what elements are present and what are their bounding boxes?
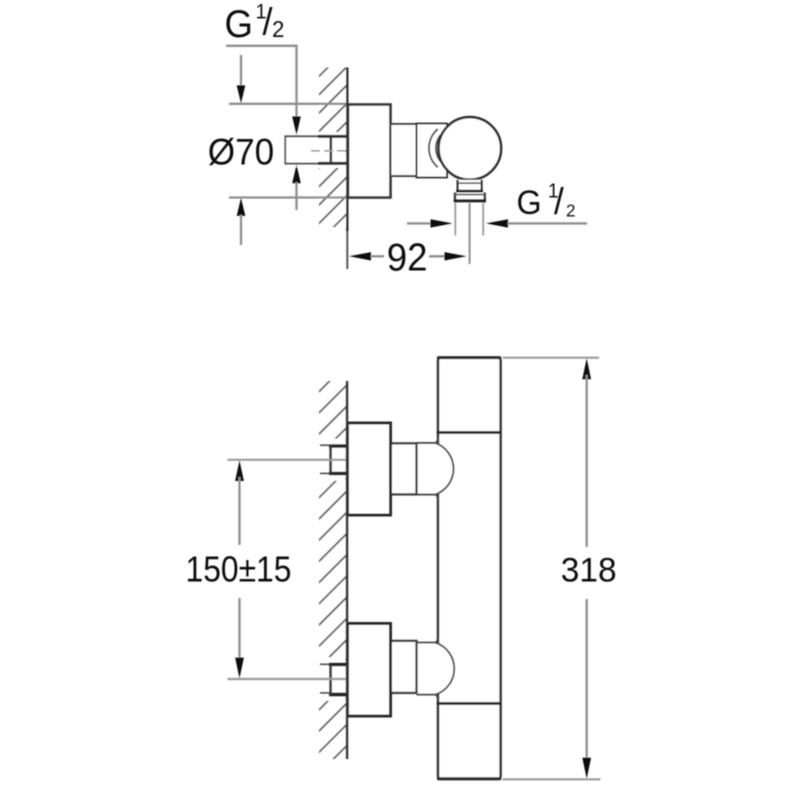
dim Ø70: upper arrow — [240, 55, 242, 88]
pipe centre line / 92 extension — [469, 203, 471, 264]
inlet boss lower — [417, 643, 455, 695]
dim G1/2 (upper): arrow up to nipple bottom — [292, 165, 301, 184]
shower hose pipe (phantom) — [454, 203, 456, 236]
extension line bottom of escutcheon (Ø70 lower) — [229, 196, 348, 198]
svg-text:/: / — [554, 180, 565, 222]
dim G1/2 (upper): arrow down to nipple top — [292, 117, 301, 136]
collar below knob — [456, 180, 483, 192]
svg-text:G: G — [225, 2, 253, 45]
wall section hatching (top view) — [319, 68, 347, 228]
dim 150: extension line lower — [228, 678, 347, 680]
nipple centre line — [311, 150, 348, 152]
svg-text:92: 92 — [387, 236, 428, 279]
svg-text:Ø70: Ø70 — [208, 130, 274, 172]
wall escutcheon (top view) — [348, 105, 391, 198]
valve body (front view) — [437, 358, 502, 780]
S-union connector lower — [391, 641, 417, 693]
dim G1/2 (outlet): line and arrows — [407, 222, 431, 224]
inlet boss upper — [417, 443, 454, 495]
S-union connector upper — [391, 443, 417, 494]
supply pipe stub upper — [320, 444, 330, 446]
extension line top of escutcheon (Ø70 upper) — [229, 103, 348, 105]
dim 318: dimension line and arrows — [582, 358, 591, 379]
dim 150±15: dimension line and arrows — [235, 460, 244, 481]
wall face extension for 92 dim — [346, 231, 348, 269]
svg-text:G: G — [517, 184, 542, 222]
text G1/2 (upper) — [225, 0, 285, 45]
svg-text:318: 318 — [561, 551, 617, 590]
dim 150: extension line upper — [228, 459, 347, 461]
wall face line (top view) — [346, 68, 349, 232]
wall face line (front view) — [346, 381, 349, 759]
wall section hatching (front view) — [319, 381, 347, 759]
valve body section 1 — [391, 124, 417, 176]
valve body section 2 — [417, 124, 448, 178]
dim G1/2 (upper): leader — [226, 45, 298, 47]
dim 318: extension lines — [503, 357, 599, 359]
svg-text:150±15: 150±15 — [186, 549, 292, 590]
dim Ø70: lower arrow — [237, 198, 246, 216]
wall escutcheon upper (front view) — [348, 423, 391, 515]
text G1/2 (outlet) — [517, 180, 576, 222]
union nut upper — [329, 443, 348, 477]
union nut lower — [329, 662, 348, 696]
svg-text:2: 2 — [566, 200, 576, 221]
inlet nipple through wall — [285, 133, 349, 167]
svg-text:2: 2 — [272, 15, 284, 42]
housing rim arcs behind knob — [429, 129, 438, 167]
outlet nut below collar — [454, 193, 486, 203]
supply pipe stub lower — [320, 663, 330, 665]
thermostat knob (circle) — [439, 117, 502, 180]
wall escutcheon lower (front view) — [348, 624, 391, 717]
dim 92: arrows and line — [349, 252, 371, 260]
